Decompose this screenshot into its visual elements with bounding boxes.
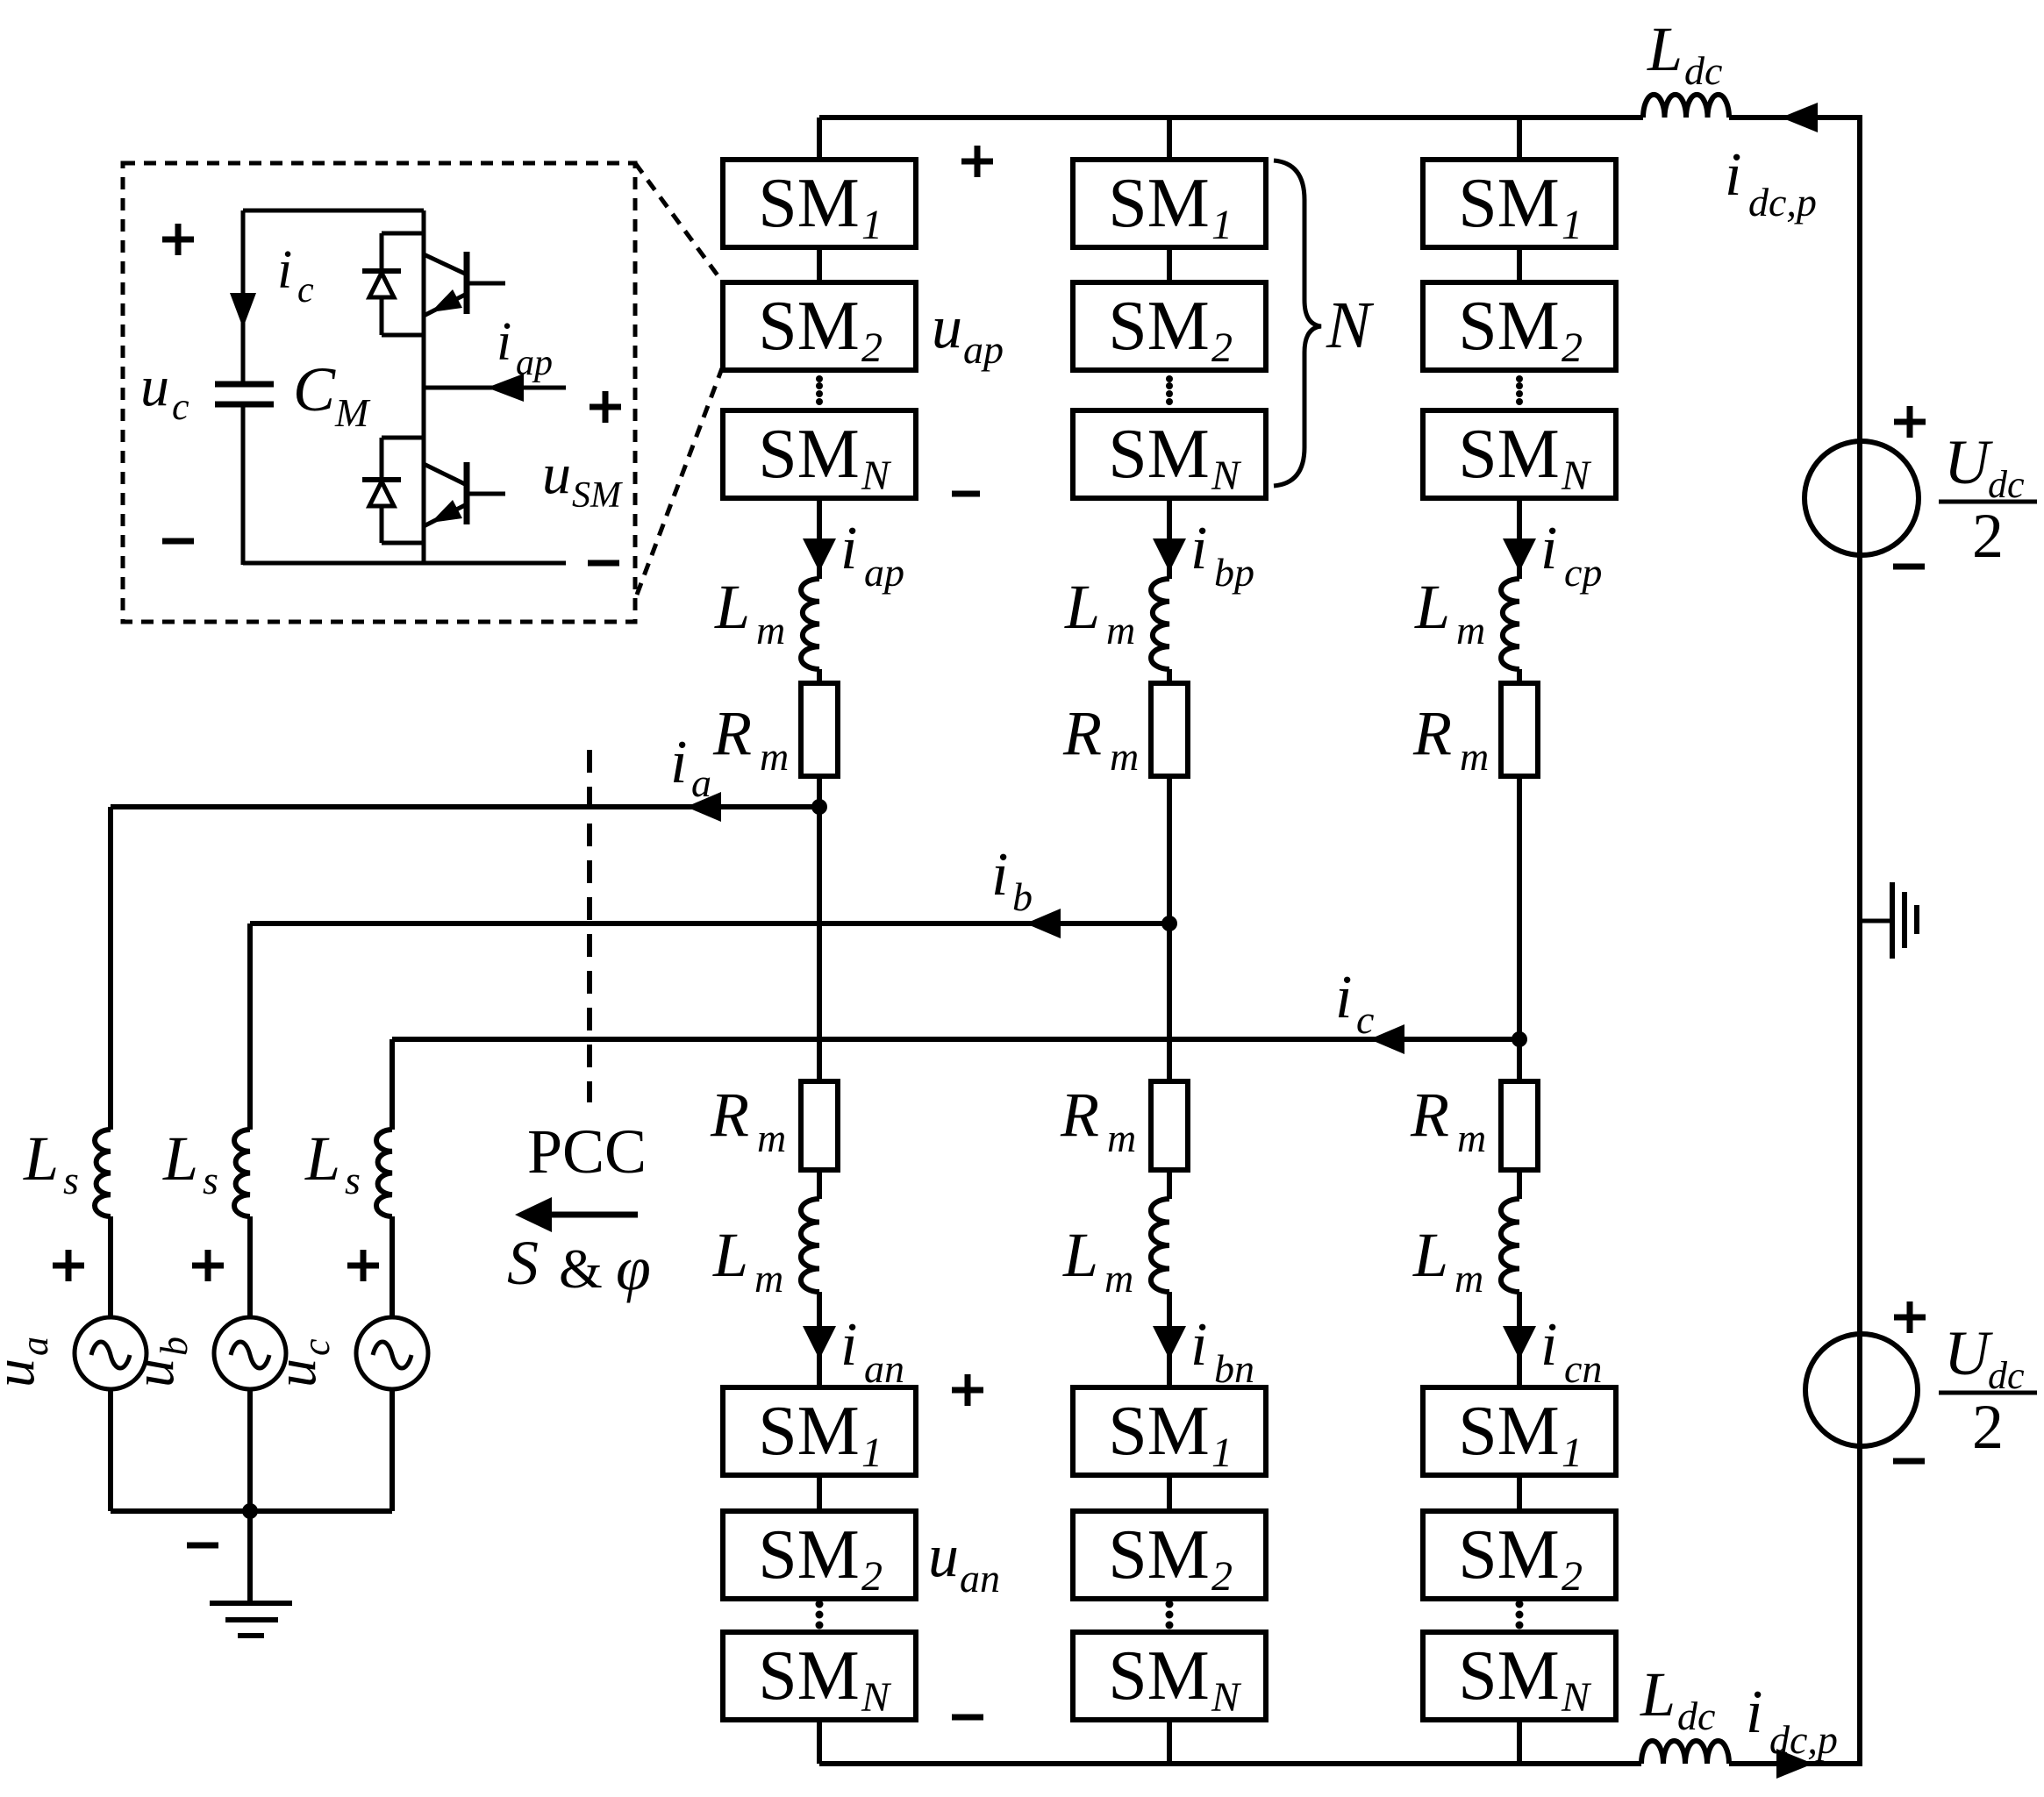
minus sign of top Udc/2: [1893, 564, 1925, 570]
dotted continuation phase A lower: [816, 1601, 824, 1608]
svg-text:SM: SM: [1108, 1516, 1210, 1594]
transistor T1 gate lead: [467, 282, 505, 286]
arrow i_bp (arm current): [1153, 538, 1186, 572]
plus sign u_an: [952, 1374, 983, 1406]
svg-text:N: N: [1561, 453, 1592, 499]
wire source to neutral phase b: [247, 1389, 253, 1511]
inductor Lm phase A upper: [801, 579, 819, 669]
svg-text:dc,p: dc,p: [1769, 1717, 1838, 1762]
wire Rm to AC node phase B: [1167, 776, 1172, 923]
svg-text:SM: SM: [1108, 1393, 1210, 1470]
svg-text:L: L: [1647, 14, 1683, 84]
wire SMN to arm inductor phase A: [817, 498, 822, 579]
submodule SMN phase C upper: [1423, 410, 1616, 498]
svg-text:2: 2: [1211, 324, 1233, 371]
submodule SM2 phase B lower: [1073, 1511, 1266, 1599]
wire SM1-SM2 phase C lower: [1517, 1475, 1522, 1511]
inductor Lm phase C upper: [1501, 579, 1519, 669]
svg-text:C: C: [293, 354, 336, 424]
svg-text:SM: SM: [1458, 165, 1560, 242]
svg-text:m: m: [1457, 1116, 1486, 1160]
arrow i_ap (inset, pointing left): [487, 374, 524, 402]
wire SM1-SM2 phase A lower: [817, 1475, 822, 1511]
svg-text:i: i: [840, 515, 857, 582]
wire Ls to source phase a: [108, 1216, 113, 1319]
svg-text:2: 2: [1562, 324, 1583, 371]
diode D1 branch wires: [382, 232, 424, 236]
svg-text:N: N: [1561, 1674, 1592, 1721]
wire i_c line: [392, 1037, 1519, 1042]
svg-text:SM: SM: [758, 416, 860, 493]
inductor Lm phase A lower: [801, 1199, 819, 1292]
svg-text:SM: SM: [1458, 1637, 1560, 1715]
svg-text:L: L: [304, 1123, 340, 1194]
svg-text:U: U: [1944, 1318, 1993, 1388]
transistor T2 (IGBT) bar: [464, 462, 470, 524]
wire capacitor bottom lead: [241, 404, 246, 565]
submodule SM2 phase A lower: [723, 1511, 916, 1599]
plus sign source a: [53, 1250, 84, 1281]
diode D2: [362, 477, 401, 482]
svg-text:s: s: [63, 1158, 79, 1202]
svg-text:u: u: [122, 1358, 186, 1387]
inductor Lm phase C lower: [1501, 1199, 1519, 1292]
submodule SM1 phase A lower: [723, 1387, 916, 1475]
wire i_b line: [250, 921, 1169, 926]
svg-text:N: N: [861, 1674, 892, 1721]
wire Lm-Rm phase B upper: [1167, 669, 1172, 683]
wire SM output node: [424, 386, 566, 390]
node B (junction dot): [1161, 916, 1177, 931]
submodule SM1 phase C lower: [1423, 1387, 1616, 1475]
svg-text:an: an: [864, 1346, 904, 1391]
svg-text:SM: SM: [572, 475, 623, 516]
PCC boundary dashed line: [587, 750, 592, 1102]
submodule SM1 phase B lower: [1073, 1387, 1266, 1475]
svg-text:L: L: [1412, 1220, 1448, 1290]
wire neutral to ground: [247, 1511, 253, 1603]
wire SMN to arm inductor phase C: [1517, 498, 1522, 579]
wire SMN to arm inductor phase B: [1167, 498, 1172, 579]
svg-text:cp: cp: [1564, 550, 1602, 595]
wire source to neutral phase a: [108, 1389, 113, 1511]
svg-text:bn: bn: [1214, 1346, 1254, 1391]
inductor Ls phase c: [376, 1130, 392, 1216]
arrow i_dc,p (bottom, pointing right): [1776, 1749, 1813, 1779]
svg-text:s: s: [345, 1158, 361, 1202]
dc source Udc/2 (top): [1805, 441, 1919, 555]
svg-text:m: m: [1107, 1116, 1136, 1160]
node C (junction dot): [1512, 1031, 1527, 1047]
svg-text:i: i: [670, 729, 687, 796]
svg-text:N: N: [861, 453, 892, 499]
svg-text:SM: SM: [758, 1393, 860, 1470]
inductor Lm phase B upper: [1151, 579, 1169, 669]
arrow S & phi (power flow, pointing left): [548, 1212, 638, 1218]
wire SM1-SM2 phase C upper: [1517, 247, 1522, 282]
plus sign u_c (inset): [162, 224, 194, 255]
wire top stub phase A: [817, 118, 822, 160]
svg-text:m: m: [1110, 734, 1139, 779]
resistor Rm phase B upper: [1151, 683, 1188, 776]
transistor T1 (IGBT) bar: [464, 252, 470, 314]
transistor T1 collector: [424, 254, 467, 275]
dotted continuation phase C upper: [1516, 375, 1523, 382]
capacitor CM: [215, 382, 274, 388]
svg-text:2: 2: [1562, 1553, 1583, 1600]
svg-text:φ: φ: [616, 1233, 651, 1303]
svg-text:i: i: [1190, 1311, 1207, 1379]
svg-text:an: an: [960, 1556, 1000, 1601]
svg-text:L: L: [1064, 572, 1100, 642]
arrow i_bn (arm current): [1153, 1326, 1186, 1359]
wire bottom stub phase B: [1167, 1720, 1172, 1764]
transistor T2 emitter: [424, 504, 467, 526]
svg-text:b: b: [1012, 874, 1033, 919]
inset dashed box: [123, 163, 635, 622]
submodule SM2 phase C lower: [1423, 1511, 1616, 1599]
svg-text:L: L: [1062, 1220, 1098, 1290]
wire AC node to lower Rm phase A: [817, 807, 822, 1081]
resistor Rm phase C lower: [1501, 1081, 1538, 1170]
svg-text:m: m: [756, 608, 785, 652]
inductor Ls phase a: [95, 1130, 111, 1216]
svg-text:c: c: [172, 385, 189, 428]
arrow i_c (pointing left): [1369, 1024, 1404, 1054]
resistor Rm phase A upper: [801, 683, 838, 776]
wire Lm to SM1 phase B lower: [1167, 1292, 1172, 1387]
svg-text:SM: SM: [758, 288, 860, 365]
label u_b (rotated): [122, 1337, 196, 1387]
svg-text:1: 1: [1562, 1430, 1583, 1476]
arrow i_cp (arm current): [1503, 538, 1536, 572]
wire SM1-SM2 phase B lower: [1167, 1475, 1172, 1511]
svg-text:1: 1: [1562, 202, 1583, 248]
svg-text:2: 2: [1972, 1392, 2004, 1462]
wire bottom DC bus right segment: [1729, 1761, 1862, 1766]
brace N (number of submodules): [1274, 160, 1321, 486]
svg-text:N: N: [1326, 289, 1375, 362]
svg-text:i: i: [1725, 141, 1741, 209]
plus sign source b: [192, 1250, 224, 1281]
wire AC node to lower Rm phase B: [1167, 923, 1172, 1081]
svg-text:SM: SM: [758, 1516, 860, 1594]
wire half-bridge vertical: [422, 210, 426, 563]
ac source u_c: [356, 1317, 428, 1389]
submodule SM1 phase A upper: [723, 160, 916, 247]
svg-text:dc: dc: [1677, 1694, 1715, 1738]
svg-text:i: i: [1746, 1679, 1762, 1746]
svg-text:L: L: [23, 1123, 59, 1194]
svg-text:m: m: [757, 1116, 786, 1160]
arrow i_dc,p (top, pointing left): [1781, 103, 1818, 132]
svg-text:2: 2: [1972, 501, 2004, 571]
plus sign source c: [347, 1250, 379, 1281]
svg-text:u: u: [932, 294, 962, 361]
wire bottom stub phase A: [817, 1720, 822, 1764]
svg-text:m: m: [754, 1256, 783, 1301]
wire AC node to lower Rm phase C: [1517, 1039, 1522, 1081]
minus sign u_an: [952, 1715, 983, 1721]
submodule SM2 phase C upper: [1423, 282, 1616, 370]
svg-text:u: u: [140, 354, 169, 418]
wire top DC bus left segment: [819, 115, 1643, 120]
diode D1: [362, 268, 401, 274]
svg-text:c: c: [295, 1338, 338, 1356]
arrow i_cn (arm current): [1503, 1326, 1536, 1359]
resistor Rm phase B lower: [1151, 1081, 1188, 1170]
svg-text:i: i: [840, 1311, 857, 1379]
svg-text:N: N: [1211, 453, 1242, 499]
svg-text:1: 1: [861, 1430, 883, 1476]
svg-text:1: 1: [1211, 1430, 1233, 1476]
svg-text:i: i: [1335, 964, 1352, 1031]
submodule SMN phase C lower: [1423, 1632, 1616, 1720]
wire right DC bus: [1857, 118, 1862, 1764]
wire Lm-Rm phase A upper: [817, 669, 822, 683]
svg-text:2: 2: [861, 1553, 883, 1600]
svg-text:m: m: [1456, 608, 1485, 652]
svg-text:ap: ap: [864, 550, 904, 595]
dashed link box to SM2 (upper): [635, 163, 720, 279]
svg-text:SM: SM: [1108, 1637, 1210, 1715]
wire SM1-SM2 phase B upper: [1167, 247, 1172, 282]
wire Ls to source phase b: [247, 1216, 253, 1319]
svg-text:ap: ap: [516, 343, 553, 383]
minus sign of bottom Udc/2: [1893, 1458, 1925, 1465]
minus sign u_SM (inset): [588, 560, 619, 567]
svg-text:b: b: [153, 1337, 196, 1356]
svg-text:dc,p: dc,p: [1748, 180, 1817, 225]
wire Rm-Lm phase A lower: [817, 1170, 822, 1199]
wire neutral bus: [111, 1508, 392, 1514]
svg-text:cn: cn: [1564, 1346, 1602, 1391]
svg-text:R: R: [1060, 1080, 1099, 1150]
submodule SM2 phase A upper: [723, 282, 916, 370]
ground (neutral): [210, 1601, 292, 1606]
svg-text:2: 2: [1211, 1553, 1233, 1600]
submodule SMN phase A upper: [723, 410, 916, 498]
svg-text:L: L: [714, 572, 750, 642]
svg-text:SM: SM: [1458, 416, 1560, 493]
resistor Rm phase C upper: [1501, 683, 1538, 776]
svg-text:u: u: [928, 1522, 959, 1590]
resistor Rm phase A lower: [801, 1081, 838, 1170]
wire top stub phase C: [1517, 118, 1522, 160]
plus sign u_SM (inset): [590, 391, 621, 423]
svg-text:m: m: [760, 734, 789, 779]
svg-text:u: u: [0, 1358, 46, 1387]
svg-text:&: &: [559, 1237, 603, 1300]
wire Rm-Lm phase C lower: [1517, 1170, 1522, 1199]
wire SM1-SM2 phase A upper: [817, 247, 822, 282]
svg-text:m: m: [1454, 1256, 1483, 1301]
wire grid phase a upper: [108, 807, 113, 1130]
dashed link box to SM2 (lower): [637, 368, 722, 595]
submodule SMN phase A lower: [723, 1632, 916, 1720]
svg-text:R: R: [1062, 698, 1102, 768]
dotted continuation phase C lower: [1516, 1601, 1524, 1608]
svg-text:a: a: [13, 1337, 56, 1356]
svg-text:SM: SM: [758, 165, 860, 242]
wire Rm to AC node phase C: [1517, 776, 1522, 1039]
transistor T2 collector: [424, 464, 467, 485]
node neutral (junction dot): [242, 1503, 258, 1519]
svg-text:i: i: [497, 312, 511, 372]
diode D2 branch wires: [382, 436, 424, 440]
svg-text:R: R: [710, 1080, 749, 1150]
svg-text:N: N: [1211, 1674, 1242, 1721]
svg-text:L: L: [1414, 572, 1450, 642]
plus sign u_ap: [961, 146, 993, 177]
svg-text:bp: bp: [1214, 550, 1254, 595]
node A (junction dot): [811, 799, 827, 815]
svg-text:a: a: [691, 760, 711, 805]
svg-text:1: 1: [1211, 202, 1233, 248]
plus sign of top Udc/2: [1894, 406, 1926, 438]
wire Ls to source phase c: [390, 1216, 395, 1319]
svg-text:S: S: [507, 1228, 539, 1298]
svg-text:u: u: [264, 1358, 328, 1387]
transistor T2 gate lead: [467, 492, 505, 496]
wire inset bottom: [243, 561, 566, 566]
inductor Ldc (top): [1643, 95, 1729, 118]
wire top stub phase B: [1167, 118, 1172, 160]
svg-text:i: i: [1540, 1311, 1557, 1379]
svg-text:SM: SM: [1108, 288, 1210, 365]
inductor Ldc (bottom): [1641, 1741, 1729, 1764]
svg-text:L: L: [712, 1220, 748, 1290]
wire i_a line: [111, 804, 819, 809]
inductor Ls phase b: [234, 1130, 250, 1216]
submodule SM1 phase C upper: [1423, 160, 1616, 247]
ac source u_b: [214, 1317, 286, 1389]
arrow i_b (pointing left): [1026, 909, 1061, 938]
svg-text:R: R: [712, 698, 752, 768]
svg-text:2: 2: [861, 324, 883, 371]
plus sign of bottom Udc/2: [1894, 1301, 1926, 1333]
svg-text:m: m: [1104, 1256, 1133, 1301]
svg-text:R: R: [1412, 698, 1452, 768]
svg-text:m: m: [1106, 608, 1135, 652]
svg-text:i: i: [991, 841, 1008, 909]
svg-text:R: R: [1410, 1080, 1449, 1150]
minus sign neutral: [187, 1543, 218, 1549]
svg-text:U: U: [1944, 427, 1993, 497]
svg-text:L: L: [1640, 1659, 1676, 1729]
submodule SM2 phase B upper: [1073, 282, 1266, 370]
wire Lm-Rm phase C upper: [1517, 669, 1522, 683]
minus sign u_c (inset): [162, 538, 194, 545]
svg-text:SM: SM: [1458, 1393, 1560, 1470]
svg-text:i: i: [1190, 515, 1207, 582]
submodule SM1 phase B upper: [1073, 160, 1266, 247]
arrow i_ap (arm current): [803, 538, 836, 572]
wire bottom stub phase C: [1517, 1720, 1522, 1764]
wire top DC bus right segment: [1729, 115, 1862, 120]
svg-text:SM: SM: [1458, 1516, 1560, 1594]
wire Rm to AC node phase A: [817, 776, 822, 807]
svg-text:SM: SM: [1108, 416, 1210, 493]
wire bottom DC bus left segment: [819, 1761, 1641, 1766]
dotted continuation phase A upper: [816, 375, 823, 382]
svg-text:i: i: [277, 240, 292, 300]
svg-text:i: i: [1540, 515, 1557, 582]
wire Lm to SM1 phase A lower: [817, 1292, 822, 1387]
wire grid phase b upper: [247, 923, 253, 1130]
svg-text:s: s: [203, 1158, 218, 1202]
wire Lm to SM1 phase C lower: [1517, 1292, 1522, 1387]
svg-text:c: c: [1356, 997, 1374, 1042]
svg-text:M: M: [334, 390, 371, 435]
svg-text:L: L: [162, 1123, 198, 1194]
svg-text:1: 1: [861, 202, 883, 248]
dotted continuation phase B lower: [1166, 1601, 1174, 1608]
minus sign u_ap: [952, 491, 980, 497]
label u_c (rotated): [264, 1338, 338, 1387]
svg-text:dc: dc: [1684, 48, 1722, 93]
wire Rm-Lm phase B lower: [1167, 1170, 1172, 1199]
svg-text:SM: SM: [758, 1637, 860, 1715]
svg-text:u: u: [542, 442, 571, 506]
arrow i_a (pointing left): [686, 792, 721, 822]
arrow i_c (capacitor current): [230, 293, 256, 328]
svg-text:m: m: [1460, 734, 1489, 779]
inductor Lm phase B lower: [1151, 1199, 1169, 1292]
svg-text:ap: ap: [963, 327, 1004, 372]
dotted continuation phase B upper: [1166, 375, 1173, 382]
transistor T1 emitter: [424, 294, 467, 316]
svg-text:PCC: PCC: [527, 1116, 647, 1187]
wire capacitor top lead: [241, 210, 246, 382]
ground (right bus): [1860, 919, 1892, 923]
svg-text:SM: SM: [1108, 165, 1210, 242]
wire grid phase c upper: [390, 1039, 395, 1130]
svg-text:c: c: [297, 270, 314, 310]
label u_a (rotated): [0, 1337, 56, 1387]
submodule SMN phase B upper: [1073, 410, 1266, 498]
wire source to neutral phase c: [390, 1389, 395, 1511]
arrow i_an (arm current): [803, 1326, 836, 1359]
submodule SMN phase B lower: [1073, 1632, 1266, 1720]
svg-text:SM: SM: [1458, 288, 1560, 365]
ac source u_a: [75, 1317, 147, 1389]
wire inset top: [243, 209, 424, 213]
dc source Udc/2 (bottom): [1805, 1334, 1918, 1446]
